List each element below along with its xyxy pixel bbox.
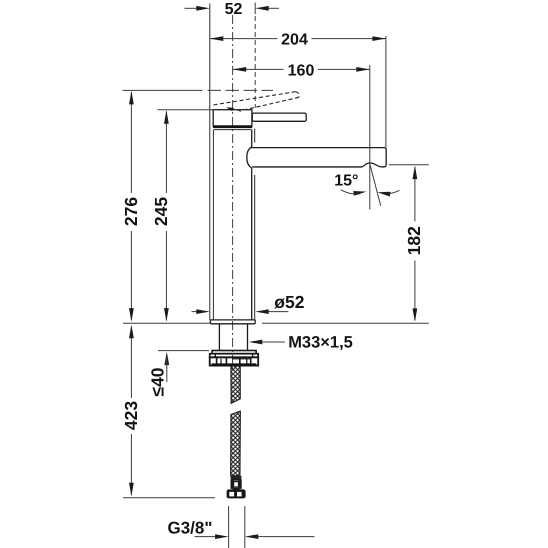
extension line (hose end, for 423): [123, 497, 215, 499]
base flange: [210, 320, 255, 324]
extension line left (body left edge, full height): [209, 4, 211, 321]
extension line for 160 / aerator axis: [369, 65, 371, 163]
hose hex nipple: [231, 480, 241, 490]
svg-text:204: 204: [281, 32, 308, 49]
faucet cap (cartridge cover): [213, 110, 252, 126]
svg-text:G3/8": G3/8": [168, 519, 213, 538]
svg-text:M33×1,5: M33×1,5: [288, 334, 353, 352]
svg-text:ø52: ø52: [274, 292, 304, 312]
body inner contour left: [212, 130, 214, 320]
rotation arrow (small): [230, 108, 241, 111]
extension line (mounting surface right, for 182): [262, 322, 429, 324]
15 deg arc arrow left: [341, 189, 367, 196]
extension line (raised handle top), solid then dashed: [123, 89, 203, 91]
svg-text:160: 160: [288, 62, 315, 79]
body top edge line: [214, 129, 252, 131]
dimension 276: [121, 91, 141, 322]
dimension 245: [151, 110, 171, 321]
supply hose lower segment (braided): [231, 411, 241, 476]
extension line right for 204 (down to spout tip): [385, 36, 387, 147]
mounting nut: [210, 351, 259, 366]
dimension o52 (body diameter): [192, 292, 305, 314]
dimension &le;40: [148, 351, 209, 397]
cap thick bottom edge: [213, 126, 252, 128]
centerline of faucet: [232, 15, 234, 371]
dimension 204: [210, 32, 386, 49]
label M33x1,5 with leader arrow: [249, 334, 353, 352]
extension line (cap top, for 245): [158, 109, 214, 111]
extension line (aerator face, for 182): [389, 164, 429, 166]
svg-text:423: 423: [121, 401, 141, 430]
dimension G3/8: [168, 519, 315, 540]
extension line right dashed (x=254.8 top): [254, 3, 256, 15]
dimension 182: [404, 166, 424, 322]
svg-text:276: 276: [121, 197, 141, 226]
svg-text:182: 182: [404, 226, 424, 255]
mounting surface extension line (left): [123, 322, 210, 324]
svg-text:245: 245: [151, 197, 171, 226]
threaded shank: [218, 324, 220, 351]
15 deg reference vertical: [369, 163, 371, 210]
extension lines for G3/8: [228, 506, 230, 548]
svg-text:52: 52: [225, 1, 243, 18]
hose end nut (G3/8): [227, 489, 246, 498]
dimension 160: [233, 62, 370, 79]
spout: [250, 148, 386, 167]
spout root arc: [247, 147, 252, 168]
svg-text:≤40: ≤40: [148, 367, 168, 396]
raised handle (dashed alternate position): [214, 92, 300, 110]
dimension 52 (top): [185, 1, 280, 18]
15 deg arc arrow right: [377, 190, 400, 197]
svg-text:15°: 15°: [334, 173, 358, 190]
15 deg slanted line: [370, 164, 381, 206]
body contour right (main): [251, 130, 253, 147]
dimension 423: [121, 325, 141, 496]
handle lever (horizontal): [252, 113, 306, 121]
hose ferrule: [231, 476, 242, 480]
body outer contour right: [254, 129, 256, 143]
supply hose upper segment (braided): [231, 366, 240, 404]
